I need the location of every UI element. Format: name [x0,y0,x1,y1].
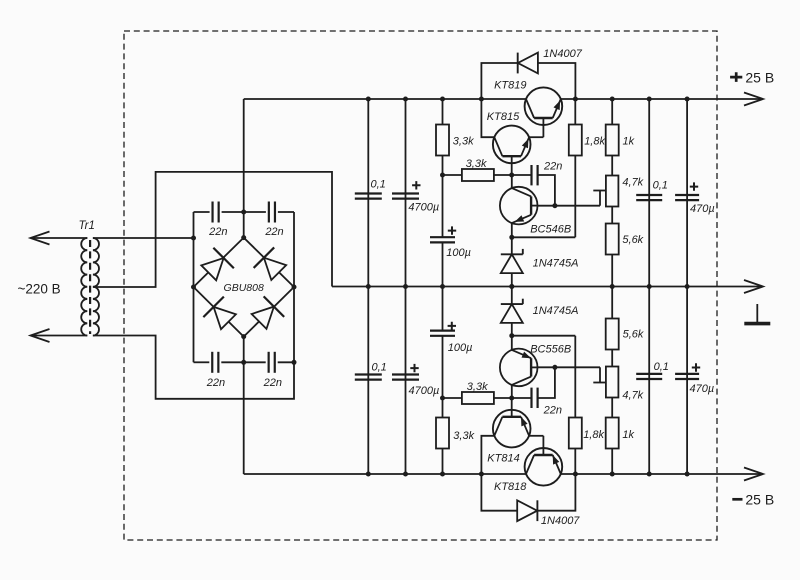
node bridge bottom edge center [241,360,246,365]
transformer Tr1 label [79,220,95,232]
svg-text:470µ: 470µ [690,383,715,395]
wire BC546B base to trimmer wiper [538,191,601,206]
svg-text:4700µ: 4700µ [409,385,440,397]
svg-text:5,6k: 5,6k [622,234,643,246]
svg-text:4,7k: 4,7k [622,176,643,188]
svg-text:GBU808: GBU808 [224,282,264,294]
label KT819 [494,80,526,92]
capacitor 4700µ (lower) [392,375,419,380]
plus sign 470µ upper [690,182,698,190]
label 1k upper [623,136,635,148]
node bridge bottom-right corner [292,360,297,365]
plus sign 100µ upper [448,226,456,234]
label 1N4007 upper [543,48,582,60]
wire 0,1 output column [648,99,650,474]
junction dots bottom rail [366,472,690,477]
capacitor 22n (lower) [512,367,555,408]
svg-text:22n: 22n [206,377,225,389]
node bridge top edge center [241,210,246,215]
svg-text:1k: 1k [622,429,634,441]
node BC556B emitter junction [509,333,514,338]
wire KT815 collector to raw rail [481,99,494,137]
plus sign 4700µ lower [410,364,418,372]
resistor 3,3k (lower vertical) [436,398,449,474]
resistor 5,6k (upper) [606,207,619,287]
label 22n bridge bottom-right [263,377,282,389]
capacitor 470µ (upper) [675,195,699,200]
capacitor 100µ (upper) [430,175,455,287]
wire bridge box right edge [293,212,295,362]
svg-text:Tr1: Tr1 [79,220,95,232]
diode 1N4007 (lower) [481,474,575,521]
svg-text:1N4745A: 1N4745A [533,257,579,269]
wire secondary center tap [93,172,332,287]
node zener mid-rail junction [509,284,514,289]
zener diode 1N4745A (lower) [501,287,523,336]
resistor 1,8k (lower) [569,418,582,475]
svg-text:470µ: 470µ [690,203,715,215]
wire BC546B emitter lead [511,223,513,237]
label 22n bridge bottom-left [206,377,225,389]
label 100µ upper [446,247,471,259]
node bridge right vertex [292,285,297,290]
label BC546B [530,223,571,235]
transformer Tr1 primary winding [81,238,87,336]
label ~220 В [18,282,61,297]
wire bottom rail -25V [244,468,763,481]
capacitor 22n (bridge top-right) [269,202,275,223]
resistor 1k (upper) [606,99,619,176]
plus sign 470µ lower [692,363,700,371]
wire KT814 base lead [511,398,513,417]
label 5,6k upper [622,234,643,246]
wire KT815 emitter to KT819 base [530,118,544,137]
junction dots top rail [366,97,690,102]
label 3,3k lower-vertical [453,430,474,442]
plus sign 100µ lower [448,322,456,330]
svg-text:0,1: 0,1 [372,362,387,374]
label 100µ lower [448,342,473,354]
svg-text:1N4007: 1N4007 [541,515,580,527]
node KT814 base junction [509,396,514,401]
resistor 1,8k (upper) [569,99,582,156]
wire 470µ column [686,99,688,474]
diode 1N4007 (upper) [481,53,575,99]
resistor 3,3k (upper horizontal) [443,169,512,181]
wire secondary bottom terminal to bridge [93,336,294,399]
capacitor 22n (upper) [512,165,555,206]
wire BC546B emitter node to 1,8k [512,156,576,238]
label 3,3k upper-horizontal [466,158,487,170]
svg-text:0,1: 0,1 [653,179,668,191]
label KT818 [494,481,527,493]
label 470µ upper [690,203,715,215]
capacitor 22n (bridge bottom-left) [212,352,218,373]
svg-text:3,3k: 3,3k [453,430,474,442]
node BC556B base / 22n junction [552,365,557,370]
svg-text:0,1: 0,1 [371,179,386,191]
svg-text:KT814: KT814 [487,452,519,464]
transformer Tr1 secondary winding [93,238,99,336]
wire mid rail 0V [332,280,763,293]
svg-text:1,8k: 1,8k [583,429,604,441]
svg-text:KT819: KT819 [494,80,526,92]
node 3,3k junction upper [440,173,445,178]
svg-text:22n: 22n [543,160,562,172]
capacitor 22n (bridge bottom-right) [269,352,275,373]
label 22n lower [543,404,562,416]
wire 4700µ filter column [405,99,407,474]
svg-text:BC546B: BC546B [530,223,571,235]
label KT815 [487,111,520,123]
label 1N4745A lower [533,305,579,317]
svg-text:22n: 22n [263,377,282,389]
resistor 5,6k (lower) [606,287,619,367]
transistor KT814 [493,410,531,448]
wire KT814 collector to raw rail [481,436,494,474]
svg-text:4,7k: 4,7k [622,390,643,402]
svg-text:22n: 22n [543,404,562,416]
capacitor 0,1 (upper left filter) [355,194,382,199]
capacitor 100µ (lower) [430,287,455,399]
wire top rail +25V [244,93,763,106]
svg-text:1k: 1k [623,136,635,148]
label 22n bridge top-right [264,226,283,238]
svg-text:3,3k: 3,3k [453,135,474,147]
resistor 3,3k (lower horizontal) [443,392,512,404]
transistor KT815 [493,126,531,164]
schematic dashed border frame [124,31,717,540]
wire BC546B collector lead [511,175,513,188]
wire bridge box left edge [193,212,195,362]
junction dots mid rail [366,284,690,289]
trimmer 4,7k (lower) [593,367,618,398]
wire bridge - output to bottom rail [243,337,245,474]
diode bridge upper-right [254,247,289,282]
label 1,8k upper [584,136,605,148]
svg-text:3,3k: 3,3k [466,158,487,170]
node bridge AC1 (left edge, transformer top) [191,236,196,241]
diode bridge lower-right [249,296,284,331]
label 22n bridge top-left [208,226,227,238]
AC input arrow bottom (~220 V line 2) [31,329,88,342]
wire secondary top terminal to bridge [93,237,194,239]
capacitor 470µ (lower) [675,374,699,379]
label + 25 В [730,69,774,85]
label 4,7k upper [622,176,643,188]
resistor 3,3k (upper vertical) [436,99,449,175]
label 4700µ lower [409,385,440,397]
transistor KT819 [525,87,563,125]
node bridge + vertex [241,235,246,240]
label 1k lower [622,429,634,441]
label 3,3k upper-vertical [453,135,474,147]
plus sign 4700µ upper [412,181,420,189]
AC input arrow top (~220 V line 1) [31,232,88,245]
svg-text:~220 В: ~220 В [18,282,61,297]
label 4700µ upper [408,202,439,214]
svg-text:3,3k: 3,3k [467,381,488,393]
label 4,7k lower [622,390,643,402]
svg-text:KT815: KT815 [487,111,520,123]
capacitor 0,1 (lower left filter) [355,375,382,380]
wire BC556B emitter lead [511,336,513,350]
capacitor 4700µ (upper) [392,194,419,199]
capacitor 0,1 (lower output) [636,374,662,379]
label 1N4007 lower [541,515,580,527]
label 0,1 lower-left [372,362,387,374]
trimmer 4,7k (upper) [593,176,618,207]
label 0,1 upper-output [653,179,668,191]
node KT815 base junction [509,173,514,178]
label 3,3k lower-horizontal [467,381,488,393]
label BC556B [530,343,571,355]
label 1N4745A upper [533,257,579,269]
wire bridge box bottom edge [194,361,295,363]
ground symbol [744,304,770,324]
label KT814 [487,452,519,464]
svg-text:22n: 22n [264,226,283,238]
wire bridge diamond sides [194,238,295,337]
svg-text:22n: 22n [208,226,227,238]
transistor BC546B [500,187,538,225]
svg-text:0,1: 0,1 [654,361,669,373]
svg-text:KT818: KT818 [494,481,527,493]
diode bridge lower-left [203,297,238,332]
transistor BC556B [500,349,538,387]
wire BC556B base to trimmer wiper [538,367,601,382]
resistor 1k (lower) [606,398,619,475]
zener diode 1N4745A (upper) [501,237,523,286]
transformer Tr1 core [89,240,91,334]
label GBU808 [224,282,264,294]
label - 25 В [732,491,774,507]
svg-text:4700µ: 4700µ [408,202,439,214]
svg-text:1N4745A: 1N4745A [533,305,579,317]
node 3,3k junction lower [440,396,445,401]
label 0,1 upper-left [371,179,386,191]
svg-text:1,8k: 1,8k [584,136,605,148]
capacitor 0,1 (upper output) [636,195,662,200]
node BC546B emitter junction [509,235,514,240]
wire bridge + output to top rail [243,99,245,238]
label 470µ lower [690,383,715,395]
svg-text:5,6k: 5,6k [623,328,644,340]
wire bridge box top edge [194,211,295,213]
wire BC556B collector lead [511,385,513,398]
svg-text:100µ: 100µ [448,342,473,354]
wire 0,1 filter column [367,99,369,474]
wire BC556B emitter node to 1,8k [512,336,576,418]
label 5,6k lower [623,328,644,340]
node bridge left vertex [191,285,196,290]
wire KT814 emitter to KT818 base [530,436,544,455]
svg-text:100µ: 100µ [446,247,471,259]
label 1,8k lower [583,429,604,441]
svg-text:25 В: 25 В [745,491,774,507]
capacitor 22n (bridge top-left) [213,202,219,223]
transistor KT818 [525,448,563,486]
label 0,1 lower-output [654,361,669,373]
svg-text:1N4007: 1N4007 [543,48,582,60]
label 22n upper [543,160,562,172]
node BC546B base / 22n junction [552,203,557,208]
wire KT815 base lead [511,156,513,175]
svg-text:25 В: 25 В [745,69,774,85]
diode bridge upper-left [198,248,233,283]
node bridge - vertex [241,334,246,339]
svg-text:BC556B: BC556B [530,343,571,355]
